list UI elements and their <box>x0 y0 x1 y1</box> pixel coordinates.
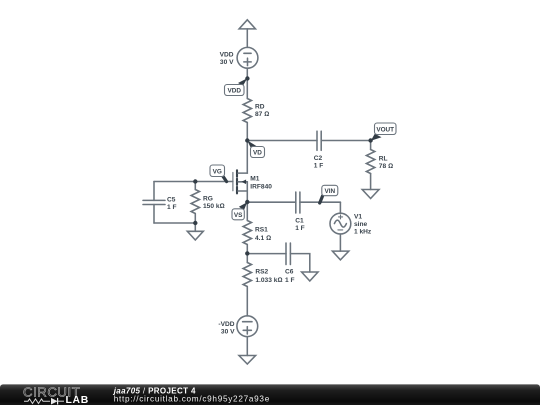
svg-text:VDD: VDD <box>227 88 241 95</box>
node VOUT junction <box>368 138 372 142</box>
svg-text:VIN: VIN <box>324 188 335 195</box>
capacitor C1 1 F <box>295 192 305 232</box>
svg-text:IRF840: IRF840 <box>250 183 272 190</box>
node VDD flag <box>225 78 248 95</box>
footer bar <box>0 384 540 408</box>
ground <box>362 190 379 199</box>
wire <box>247 253 286 255</box>
svg-text:C5: C5 <box>167 196 176 203</box>
logo resistor zigzag <box>24 399 50 404</box>
svg-text:M1: M1 <box>250 175 259 182</box>
wire <box>247 201 295 203</box>
wire <box>246 68 248 98</box>
resistor RD 87 Ω <box>243 99 269 141</box>
svg-text:C2: C2 <box>314 155 323 162</box>
svg-text:1 F: 1 F <box>167 204 177 211</box>
voltage source -VDD 30 V <box>218 316 257 337</box>
resistor RL 78 Ω <box>366 141 393 190</box>
svg-text:1 F: 1 F <box>295 225 305 232</box>
svg-text:30 V: 30 V <box>221 329 235 336</box>
node VS junction <box>245 200 249 204</box>
node VOUT flag <box>371 123 396 141</box>
node VS flag <box>232 202 247 220</box>
ground <box>302 272 318 281</box>
svg-text:VD: VD <box>253 150 262 157</box>
node VD flag <box>247 140 264 157</box>
svg-text:RG: RG <box>203 195 213 202</box>
voltage source V1 sine 1 kHz <box>330 213 372 235</box>
node junction RS1-RS2 <box>245 251 249 255</box>
wire <box>247 140 317 142</box>
resistor RG 150 kΩ <box>191 182 224 224</box>
svg-text:RD: RD <box>255 104 265 111</box>
svg-text:150 kΩ: 150 kΩ <box>203 203 225 210</box>
wire <box>246 141 248 174</box>
svg-text:VS: VS <box>234 212 243 219</box>
transistor M1 IRF840 <box>233 170 272 202</box>
node VD junction <box>245 138 249 142</box>
svg-text:4.1 Ω: 4.1 Ω <box>255 235 271 242</box>
svg-text:http://circuitlab.com/c9h95y22: http://circuitlab.com/c9h95y227a93e <box>114 395 270 404</box>
svg-text:LAB: LAB <box>66 395 89 405</box>
resistor RS2 1.033 kΩ <box>243 253 282 316</box>
power flag VDD arrow <box>239 20 255 29</box>
capacitor C5 1 F <box>143 182 177 224</box>
ground <box>187 231 203 240</box>
wire <box>246 29 248 48</box>
svg-text:1 kHz: 1 kHz <box>354 229 372 236</box>
node junction RG top <box>193 179 197 183</box>
node VIN flag <box>320 185 338 203</box>
svg-text:VG: VG <box>213 169 222 176</box>
svg-text:V1: V1 <box>354 213 362 220</box>
wire <box>246 337 248 356</box>
ground <box>332 251 348 260</box>
svg-text:-VDD: -VDD <box>218 321 234 328</box>
voltage source VDD 30 V <box>220 47 258 68</box>
svg-text:C1: C1 <box>295 218 304 225</box>
wire <box>339 234 341 251</box>
svg-text:C6: C6 <box>285 269 294 276</box>
svg-text:87 Ω: 87 Ω <box>255 111 269 118</box>
wire <box>290 254 309 272</box>
svg-text:1.033 kΩ: 1.033 kΩ <box>255 277 282 284</box>
svg-text:VDD: VDD <box>220 52 234 59</box>
svg-text:78 Ω: 78 Ω <box>379 163 393 170</box>
wire <box>339 202 341 213</box>
svg-text:sine: sine <box>354 221 368 228</box>
wire <box>154 222 195 224</box>
svg-text:RL: RL <box>379 155 388 162</box>
svg-text:RS1: RS1 <box>255 227 268 234</box>
svg-text:1 F: 1 F <box>314 163 324 170</box>
capacitor C2 1 F <box>314 131 324 169</box>
wire <box>300 201 341 203</box>
wire <box>154 181 233 183</box>
node VDD junction <box>245 76 249 80</box>
resistor RS1 4.1 Ω <box>243 202 271 253</box>
svg-text:30 V: 30 V <box>220 59 234 66</box>
node junction RG bottom <box>193 221 197 225</box>
svg-text:VOUT: VOUT <box>376 127 394 134</box>
capacitor C6 1 F <box>285 243 295 284</box>
wire <box>321 140 370 142</box>
svg-text:RS2: RS2 <box>255 269 268 276</box>
node VG flag <box>210 165 227 182</box>
wire <box>194 223 196 231</box>
logo diode <box>51 398 64 405</box>
svg-text:1 F: 1 F <box>285 277 295 284</box>
ground <box>239 356 256 365</box>
